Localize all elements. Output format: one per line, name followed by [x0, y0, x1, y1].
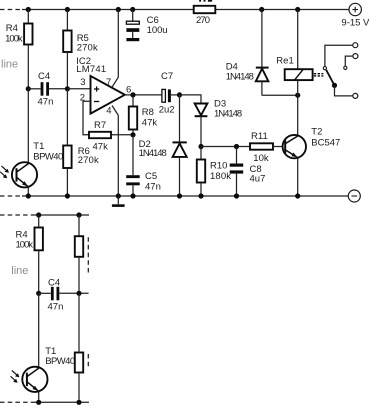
resistor R4 second line — [16, 215, 43, 251]
svg-text:line: line — [1, 59, 18, 71]
svg-text:1N4148: 1N4148 — [139, 148, 167, 159]
op-amp U1 IC2 LM741 — [67, 56, 131, 117]
svg-text:BPW40: BPW40 — [33, 152, 63, 163]
svg-text:7: 7 — [106, 77, 111, 88]
svg-text:C7: C7 — [161, 71, 173, 82]
svg-text:T1: T1 — [33, 141, 44, 152]
svg-text:LM741: LM741 — [76, 64, 106, 75]
wire section2 bottom rail dashed — [0, 401, 32, 403]
node bottom rail x236 — [234, 193, 239, 198]
terminal + 9-15V — [341, 3, 370, 28]
svg-text:4u7: 4u7 — [250, 174, 266, 185]
node junction top rail x132 — [130, 7, 135, 12]
node C4 left junction — [26, 86, 31, 91]
wire dashed continuation upper — [87, 237, 89, 274]
wire relay to T2 collector — [297, 95, 299, 135]
wire R7 to R8 bottom node — [111, 134, 133, 136]
node bottom rail x118 — [116, 193, 121, 198]
wire section2 top rail — [31, 214, 89, 216]
switch S1 contacts — [323, 43, 358, 99]
diode D2 1N4148 — [139, 139, 187, 196]
wire node to C5 — [132, 135, 134, 175]
capacitor C8 — [230, 147, 266, 197]
node bottom rail x179 — [177, 193, 182, 198]
resistor R5 — [63, 10, 98, 54]
wire pin6 output — [125, 94, 162, 96]
node section2 bottom x38 — [36, 400, 41, 405]
wire section2 top rail dashed — [0, 214, 31, 216]
node detector row C8 — [234, 144, 239, 149]
wire R6 to ground rail — [66, 168, 68, 196]
node junction top rail x297 — [295, 7, 300, 12]
svg-text:6: 6 — [126, 84, 131, 95]
svg-text:270k: 270k — [77, 43, 98, 54]
node pin3 junction — [65, 86, 70, 91]
svg-text:100k: 100k — [16, 240, 34, 251]
wire T2 emitter to ground rail — [297, 158, 299, 196]
transistor T1 BPW40 — [12, 141, 63, 187]
node section2 C4 left — [36, 291, 41, 296]
resistor R7 — [89, 120, 111, 153]
terminal - minus — [348, 190, 360, 202]
node section2 top x79 — [76, 212, 81, 217]
resistor R8 — [129, 95, 158, 130]
wire pin2 feedback loop — [83, 101, 91, 135]
wire top rail dashed left — [0, 9, 22, 11]
wire C4 node down to T1 — [27, 89, 29, 163]
wire bottom rail dashed left — [0, 195, 22, 197]
wire R11 to T2 base — [273, 146, 285, 148]
svg-text:100u: 100u — [147, 25, 168, 36]
capacitor C7 — [159, 71, 180, 115]
photo arrows T1 second — [11, 371, 20, 383]
node junction top rail x118 — [116, 7, 121, 12]
svg-text:180k: 180k — [210, 171, 231, 182]
svg-text:10k: 10k — [253, 153, 269, 164]
svg-text:3: 3 — [80, 77, 85, 88]
node R8 bottom junction — [130, 132, 135, 137]
capacitor C4 — [28, 71, 67, 108]
svg-text:47n: 47n — [145, 181, 161, 192]
svg-text:BC547: BC547 — [311, 138, 340, 149]
wire top rail left — [22, 9, 194, 11]
svg-text:270k: 270k — [78, 155, 99, 166]
svg-text:4: 4 — [106, 106, 111, 117]
transistor T1 second BPW40 — [22, 346, 75, 392]
node detector row left — [198, 144, 203, 149]
wire dashed continuation lower — [87, 354, 89, 367]
wire pin7 to top rail — [112, 10, 119, 88]
svg-text:R10: R10 — [210, 160, 227, 171]
svg-text:T2: T2 — [311, 126, 322, 137]
svg-text:line: line — [11, 265, 28, 277]
wire relay link dashed — [314, 74, 324, 76]
node section2 bottom x79 — [76, 400, 81, 405]
node bottom rail x28 — [26, 193, 31, 198]
svg-text:C4: C4 — [38, 71, 50, 82]
diode D4 1N4148 — [226, 10, 269, 96]
node section2 C4 right — [76, 291, 81, 296]
wire R4 to C4 node — [27, 45, 29, 89]
photo arrows T1 — [0, 166, 9, 178]
node pin6 junction — [130, 92, 135, 97]
capacitor C4 second line — [39, 277, 89, 312]
svg-text:47k: 47k — [93, 142, 109, 153]
ground symbol — [112, 196, 125, 207]
svg-text:2u2: 2u2 — [159, 105, 175, 116]
wire T1b emitter to rail — [38, 391, 40, 402]
wire detector row — [201, 146, 250, 148]
wire R8 to node — [132, 130, 134, 135]
wire pin3 node down to R6 — [66, 89, 68, 146]
node bottom rail x201 — [198, 193, 203, 198]
wire pin4 to ground rail — [112, 106, 118, 197]
svg-text:R11: R11 — [251, 131, 268, 142]
svg-text:C5: C5 — [145, 171, 157, 182]
svg-text:R8: R8 — [142, 107, 154, 118]
node C7 output junction — [177, 92, 182, 97]
svg-text:100k: 100k — [5, 34, 23, 45]
resistor R9 270 — [194, 0, 216, 26]
wire C7 node down to D2 — [179, 95, 181, 142]
resistor R4 — [5, 10, 32, 45]
svg-text:BPW40: BPW40 — [45, 356, 75, 367]
svg-text:9-15 V: 9-15 V — [341, 18, 370, 29]
svg-text:Re1: Re1 — [276, 56, 293, 67]
wire R5 to pin3 node — [66, 52, 68, 89]
capacitor C5 — [126, 171, 161, 196]
svg-text:47k: 47k — [142, 117, 158, 128]
resistor R10 — [197, 147, 231, 197]
wire T1 emitter to rail — [27, 187, 29, 196]
wire bottom rail — [22, 195, 348, 197]
svg-text:1N4148: 1N4148 — [226, 71, 254, 82]
wire R4b to C4b node — [38, 250, 40, 293]
node junction top rail x261 — [259, 7, 264, 12]
svg-text:R7: R7 — [94, 120, 106, 131]
node junction top rail x28 — [26, 7, 31, 12]
node bottom rail x67 — [65, 193, 70, 198]
wire C7 node to D3 — [180, 95, 202, 104]
node bottom rail x133 — [130, 193, 135, 198]
resistor section2 right lower — [75, 293, 83, 402]
svg-text:47n: 47n — [38, 97, 54, 108]
capacitor C6 — [126, 10, 167, 42]
resistor R6 — [63, 146, 99, 169]
svg-text:C4: C4 — [48, 277, 60, 288]
svg-text:47n: 47n — [48, 301, 64, 312]
node bottom rail x297 — [295, 193, 300, 198]
svg-text:270: 270 — [196, 15, 210, 26]
svg-text:1N4148: 1N4148 — [214, 108, 242, 119]
node relay bottom junction — [295, 93, 300, 98]
transistor T2 BC547 — [283, 126, 341, 158]
wire C4b node to T1b — [38, 293, 40, 367]
wire top rail right — [215, 9, 349, 11]
svg-text:R4: R4 — [6, 23, 18, 34]
diode D3 1N4148 — [195, 99, 243, 147]
wire section2 bottom rail — [32, 401, 89, 403]
node junction top rail x67 — [65, 7, 70, 12]
resistor R11 — [250, 131, 273, 164]
wire D4 to relay bottom — [262, 94, 298, 96]
resistor section2 right upper — [75, 215, 83, 293]
relay Re1 coil — [276, 10, 312, 96]
node section2 top x38 — [36, 212, 41, 217]
